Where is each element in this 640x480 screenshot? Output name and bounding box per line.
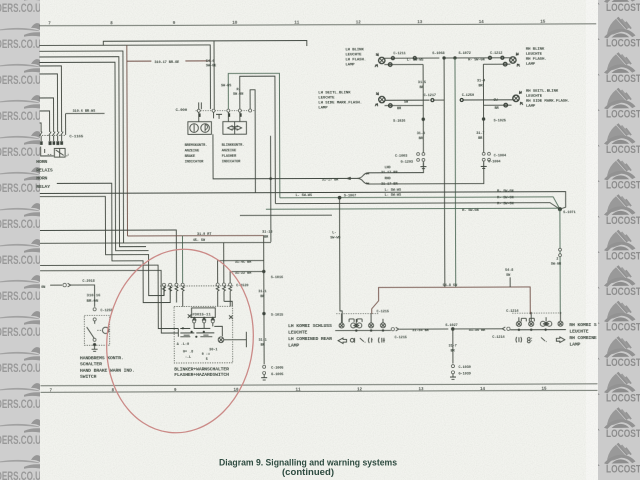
svg-text:RH COMBINE: RH COMBINE — [569, 335, 597, 341]
wire bus C — [39, 51, 123, 243]
indicator lamp circle — [102, 327, 108, 333]
bracket marks — [349, 318, 362, 320]
connector C-1004 — [482, 152, 485, 155]
connector C-1255 — [93, 308, 96, 311]
brake indicator box — [188, 122, 212, 135]
svg-text:SCHALTER: SCHALTER — [80, 361, 102, 367]
wire 31-5 BR drop — [422, 64, 424, 119]
wire L5 — [240, 214, 332, 216]
svg-text:31-1: 31-1 — [258, 339, 266, 343]
cluster verticals RH — [519, 312, 561, 321]
svg-text:R- SW-GN: R- SW-GN — [468, 59, 484, 63]
connector C-1217 — [431, 99, 434, 102]
svg-text:RH KOMBI S: RH KOMBI S — [569, 322, 597, 328]
svg-text:2: 2 — [556, 258, 558, 262]
svg-text:10: 10 — [232, 22, 238, 26]
svg-text:RH BLINK: RH BLINK — [526, 48, 545, 52]
svg-text:54-8 SW: 54-8 SW — [443, 284, 458, 288]
svg-text:31-17 BR: 31-17 BR — [322, 179, 339, 183]
connector row dashed — [512, 312, 562, 314]
svg-text:R- SW-GN: R- SW-GN — [497, 196, 513, 200]
switch dashed box — [174, 306, 233, 363]
right watermark strip — [597, 0, 640, 480]
bracket marks — [521, 317, 534, 319]
svg-text:G-1039: G-1039 — [458, 372, 470, 376]
wire bus outer — [103, 41, 307, 47]
svg-text:SW-WS: SW-WS — [330, 236, 341, 240]
svg-text:LH SEITL.BLINK: LH SEITL.BLINK — [318, 91, 351, 95]
top ruler numbers — [48, 21, 546, 27]
svg-text:31-9 RT: 31-9 RT — [197, 233, 212, 237]
svg-text:LAMP: LAMP — [569, 341, 580, 347]
connector C-1212 — [488, 56, 491, 59]
svg-text:L- SW-WS: L- SW-WS — [385, 194, 402, 198]
bottom ruler numbers — [50, 388, 548, 394]
svg-text:INDICATOR: INDICATOR — [222, 160, 241, 164]
node S-1072 — [453, 56, 456, 59]
svg-text:C-900: C-900 — [176, 109, 188, 113]
connector row C-1165 dashed — [40, 134, 66, 136]
wire 31-3 BR — [422, 119, 424, 152]
wire 31-34 BR — [399, 328, 448, 330]
svg-text:LH KOMBI SCHLUSS: LH KOMBI SCHLUSS — [288, 323, 332, 329]
svg-text:C-1214: C-1214 — [492, 336, 505, 340]
svg-text:Diagram 9. Signalling and warn: Diagram 9. Signalling and warning system… — [219, 458, 397, 468]
wire S-1071 drop — [559, 209, 561, 314]
connector row C-1520 — [160, 285, 233, 287]
wire cluster row — [335, 329, 391, 331]
wire C-900 feeder 2 — [213, 41, 215, 109]
relay bracket — [41, 147, 54, 156]
svg-text:R-: R- — [236, 88, 240, 92]
wire 31-22 BR — [230, 271, 264, 284]
svg-text:R- SW-GN: R- SW-GN — [497, 202, 513, 206]
svg-text:LAMP: LAMP — [526, 63, 536, 67]
svg-text:310-6 BR-WS: 310-6 BR-WS — [73, 110, 97, 114]
svg-text:S-1068: S-1068 — [432, 52, 444, 56]
svg-text:LH SIDE MARK.FLASH.: LH SIDE MARK.FLASH. — [318, 101, 362, 105]
wire wrap to pin 163.8 — [40, 270, 178, 333]
svg-text:C-2018: C-2018 — [82, 280, 94, 284]
svg-text:31-5: 31-5 — [418, 81, 426, 85]
svg-text:G-1203: G-1203 — [401, 161, 413, 165]
svg-text:0= .8: 0= .8 — [183, 350, 193, 354]
svg-text:31-34 BR: 31-34 BR — [412, 329, 429, 333]
connector G-1039 — [451, 371, 454, 374]
svg-text:C-1211: C-1211 — [393, 52, 405, 56]
relay terminals — [40, 141, 43, 145]
wire BR row1 LH — [384, 63, 423, 65]
icons below RH — [516, 337, 522, 343]
wire 31-7 BR — [483, 119, 485, 152]
svg-text:S-1071: S-1071 — [563, 211, 575, 215]
connector C-1215 out — [391, 328, 394, 331]
wire cluster row RH — [510, 329, 566, 331]
wire 31-4 BR drop — [482, 64, 484, 119]
svg-text:14: 14 — [480, 388, 486, 392]
ground G-1039 — [450, 374, 456, 380]
svg-text:RELAY: RELAY — [36, 184, 50, 190]
wire stair pair — [40, 265, 178, 329]
connector row C-1215 dashed — [336, 313, 378, 315]
svg-text:A .L:0: A .L:0 — [177, 343, 189, 347]
svg-text:L- SW-WS: L- SW-WS — [295, 194, 312, 198]
relay contacts — [193, 320, 196, 323]
svg-text:LEUCHTE: LEUCHTE — [288, 330, 307, 336]
svg-text:RH SIDE MARK.FLASH.: RH SIDE MARK.FLASH. — [526, 100, 570, 104]
wire lamp to C-1217 — [385, 99, 429, 101]
x marks — [188, 314, 192, 318]
svg-text:SW-GN: SW-GN — [233, 93, 243, 97]
svg-text:LAMP: LAMP — [526, 105, 536, 109]
svg-text:30-1: 30-1 — [209, 348, 217, 352]
svg-text:C-1005: C-1005 — [271, 367, 283, 371]
wire bus B to C-900 — [39, 45, 210, 110]
svg-text:FLASHER: FLASHER — [222, 155, 237, 159]
icons below — [338, 338, 347, 344]
svg-text:S-1026: S-1026 — [393, 120, 405, 124]
svg-text:LH COMBINED REAR: LH COMBINED REAR — [288, 336, 332, 342]
svg-text:RELAIS: RELAIS — [36, 167, 53, 173]
wires from flasher box to right lamps — [228, 73, 280, 198]
svg-text:HANDBREMS KONTR.: HANDBREMS KONTR. — [80, 355, 124, 361]
svg-text:15: 15 — [540, 21, 546, 25]
svg-text:31-13: 31-13 — [262, 231, 272, 235]
flasher indicator box — [223, 122, 247, 135]
wire S-1072 drop — [454, 58, 457, 287]
svg-text:S-1067: S-1067 — [344, 194, 356, 198]
svg-text:SWITCH: SWITCH — [80, 374, 97, 380]
svg-text:14: 14 — [479, 21, 485, 25]
connector C-1005 — [263, 365, 266, 368]
svg-text:31-22 BR: 31-22 BR — [235, 272, 252, 276]
svg-text:310-17 BR-GE: 310-17 BR-GE — [154, 61, 180, 65]
lamp RH blink — [510, 57, 516, 63]
wire row1 left — [385, 57, 439, 59]
svg-text:ANZEIGE: ANZEIGE — [185, 149, 200, 153]
svg-text:54-8: 54-8 — [505, 269, 513, 273]
connector G-1005 — [263, 371, 266, 374]
node S-1068 — [442, 56, 445, 59]
svg-text:12: 12 — [356, 21, 362, 25]
ground G-1005 — [261, 374, 267, 380]
wire C-1217 to S-1026 — [434, 99, 445, 101]
wire L2 — [280, 197, 560, 210]
svg-text:31-4: 31-4 — [477, 79, 486, 83]
node S-1071 — [558, 207, 562, 211]
svg-text:LHD: LHD — [384, 166, 391, 170]
svg-text:31-17 BR: 31-17 BR — [381, 183, 398, 187]
svg-text:RH FLASH.: RH FLASH. — [526, 58, 547, 62]
svg-text:31-1: 31-1 — [258, 290, 266, 294]
connector C-1211 — [391, 57, 394, 60]
ground G-1004 — [481, 161, 487, 168]
switch internals — [194, 323, 213, 329]
svg-text:13: 13 — [419, 388, 425, 392]
wire feeder red — [126, 45, 129, 236]
wire row1 right — [444, 57, 510, 59]
svg-text:LEUCHTE: LEUCHTE — [318, 96, 335, 100]
svg-text:LEUCHTE: LEUCHTE — [526, 53, 543, 57]
wire 31-4C BR — [218, 260, 264, 284]
svg-text:5: 5 — [206, 358, 208, 362]
wire from strip y195.7 to pin 170 — [40, 196, 164, 296]
wire bus E — [39, 62, 148, 251]
lamp in switch — [218, 337, 224, 343]
svg-text:G-1004: G-1004 — [488, 160, 501, 164]
svg-text:31-3: 31-3 — [417, 132, 425, 136]
lamp LH blink — [379, 57, 385, 63]
connector C-1039 — [451, 365, 454, 368]
svg-text::-L: :-L — [185, 356, 191, 360]
svg-text:11: 11 — [296, 388, 302, 392]
svg-text:S-1072: S-1072 — [458, 52, 470, 56]
wire 31-9 RT — [127, 234, 263, 236]
cluster verticals — [342, 314, 383, 323]
red annotation ellipse — [96, 241, 263, 441]
svg-text:S-1016: S-1016 — [271, 276, 283, 280]
lamp pins LH cluster — [339, 323, 344, 328]
wire 45-SW — [40, 242, 271, 285]
connector G-1203 — [417, 159, 420, 162]
svg-text:C-1250: C-1250 — [462, 94, 474, 98]
svg-text:BLINKER+WARNSCHALTER: BLINKER+WARNSCHALTER — [174, 366, 229, 372]
svg-text:11: 11 — [294, 22, 300, 26]
left watermark strip — [0, 0, 41, 480]
svg-text:13: 13 — [417, 21, 423, 25]
bottom ruler double line — [41, 384, 598, 386]
svg-text:45- SW: 45- SW — [193, 239, 206, 243]
svg-text:0 :=: 0 := — [202, 353, 210, 357]
svg-text:HAND BRAKE WARN IND.: HAND BRAKE WARN IND. — [80, 368, 135, 374]
pin stubs — [199, 112, 240, 122]
pins C-900 — [197, 109, 200, 112]
svg-text:LAMP: LAMP — [345, 63, 355, 67]
wire stair from strip y122 — [40, 123, 42, 132]
svg-text:SW-GN: SW-GN — [551, 263, 561, 267]
svg-text:310-16: 310-16 — [87, 294, 102, 298]
wire L4 — [266, 208, 560, 209]
wire from strip y227.3 to pin 176.3 — [40, 230, 176, 285]
svg-text:S-1025: S-1025 — [494, 119, 506, 123]
svg-text:G-1005: G-1005 — [271, 373, 283, 377]
switch pin — [93, 318, 96, 321]
wire chevron merge — [357, 163, 424, 179]
svg-text:LH FLASH.: LH FLASH. — [345, 58, 366, 62]
top ruler line — [39, 24, 596, 26]
wire stair from strip y65 — [39, 66, 61, 132]
horn relay box — [54, 148, 65, 157]
svg-text:C-1215: C-1215 — [377, 310, 389, 314]
svg-text:BREMSKONTR.: BREMSKONTR. — [185, 144, 208, 148]
node S-1067 — [338, 196, 342, 200]
svg-text:BLINKKONTR.: BLINKKONTR. — [222, 144, 245, 148]
relay pins (slash connectors) — [40, 132, 64, 136]
svg-text:BR-GN: BR-GN — [87, 300, 99, 304]
wire C-1250 to RH lamp — [463, 99, 513, 101]
svg-text:31-35 BR: 31-35 BR — [469, 329, 486, 333]
svg-text:S-1027: S-1027 — [445, 324, 457, 328]
svg-text:FLASHER+HAZARDSWITCH: FLASHER+HAZARDSWITCH — [174, 372, 229, 378]
svg-text:C-1039: C-1039 — [458, 366, 470, 370]
svg-text:C-1003: C-1003 — [395, 155, 407, 159]
svg-text:31-7: 31-7 — [448, 345, 456, 349]
wire 54-8 SW — [372, 287, 531, 315]
branch arrowheads — [366, 173, 369, 185]
svg-text:31-7: 31-7 — [476, 132, 484, 136]
wire C-2018 to switch — [71, 285, 95, 307]
svg-text:15: 15 — [542, 388, 548, 392]
wire 31-35 BR — [455, 328, 504, 330]
connector C-1250 — [460, 98, 463, 101]
svg-text:C-1212: C-1212 — [490, 52, 502, 56]
wire stair from strip y73 — [39, 74, 57, 132]
wire bus D — [39, 57, 146, 247]
wire 310-17 BR-GE — [127, 60, 151, 62]
svg-text:INDICATOR: INDICATOR — [185, 160, 204, 164]
wire S-1068 drop — [443, 58, 446, 287]
svg-text:C-1165: C-1165 — [69, 135, 84, 139]
svg-text:SW-WS: SW-WS — [221, 84, 232, 88]
caption — [219, 458, 397, 478]
node S-1025 — [482, 117, 485, 120]
svg-text:C-1004: C-1004 — [494, 154, 507, 158]
wire 310-6 BR-WS leader — [66, 113, 105, 134]
switch blade — [87, 321, 95, 339]
connector row dashed — [196, 110, 256, 112]
svg-text:12: 12 — [357, 388, 363, 392]
wire stair from strip y110 — [40, 111, 50, 132]
svg-text:HORN: HORN — [36, 176, 47, 182]
svg-text:LEUCHTE: LEUCHTE — [569, 329, 588, 335]
connector C-1003 — [417, 153, 420, 156]
svg-text:SW-GE: SW-GE — [206, 64, 217, 68]
ground G-1203 — [420, 161, 426, 168]
handbrake switch dashed box — [84, 315, 109, 345]
svg-text:L-: L- — [332, 231, 336, 235]
wire 31-13 BR vertical — [270, 136, 272, 242]
svg-text:S-1015: S-1015 — [271, 314, 283, 318]
svg-text:LAMP: LAMP — [318, 106, 328, 110]
svg-text:LAMP: LAMP — [288, 342, 299, 348]
svg-text:ANZEIGE: ANZEIGE — [222, 149, 237, 153]
lamp pins RH cluster — [516, 321, 521, 326]
node S-1026 — [422, 118, 425, 121]
connector C-1214 in — [502, 327, 505, 331]
lamp LH side marker — [379, 96, 385, 102]
node S-1015 — [262, 312, 265, 315]
svg-text:GN: GN — [41, 286, 45, 290]
connector G-1004 — [482, 158, 485, 161]
wire stair from strip y97 — [40, 98, 54, 132]
wire 31-17 BR from C-900 — [213, 134, 357, 179]
wire S-1016 drop — [263, 235, 265, 364]
svg-text:LH BLINK: LH BLINK — [345, 48, 364, 52]
wires pins down into switch — [164, 291, 183, 306]
svg-text:HORN: HORN — [36, 159, 47, 165]
wire S-1027 drop — [452, 329, 454, 364]
svg-text:R- SW-GN: R- SW-GN — [497, 190, 513, 194]
svg-text:31-4C BR: 31-4C BR — [235, 261, 252, 265]
node S-1027 — [451, 327, 455, 331]
svg-text:RH SEITL.BLINK: RH SEITL.BLINK — [526, 90, 559, 94]
svg-text:(continued): (continued) — [282, 467, 334, 477]
svg-text:L- SW-WS: L- SW-WS — [407, 59, 424, 63]
flasher relay box — [192, 308, 216, 318]
lamp RH side marker — [513, 95, 519, 101]
wire L3 — [275, 203, 560, 211]
svg-text:#3015-11: #3015-11 — [192, 313, 211, 317]
wire L1 — [40, 192, 566, 211]
svg-text:LEUCHTE: LEUCHTE — [526, 95, 543, 99]
svg-text:31-17 BR: 31-17 BR — [381, 171, 398, 175]
svg-text:C-1215: C-1215 — [394, 336, 406, 340]
wire BR row1 RH — [483, 63, 510, 65]
svg-text:C-1217: C-1217 — [424, 94, 436, 98]
svg-text:R- SW-GN: R- SW-GN — [462, 209, 478, 213]
svg-text:LEUCHTE: LEUCHTE — [345, 53, 362, 57]
wire from strip y182.5 into switch — [57, 183, 170, 303]
divider T — [216, 114, 222, 119]
svg-text:BRAKE: BRAKE — [185, 155, 196, 159]
relay pin stubs — [41, 136, 62, 141]
svg-text:RHD: RHD — [384, 177, 391, 181]
node S-1016 — [262, 270, 265, 273]
svg-text:C-1255: C-1255 — [100, 309, 112, 313]
wire S-1067 drop — [340, 198, 343, 324]
svg-text:L- SW-WS: L- SW-WS — [385, 189, 402, 193]
